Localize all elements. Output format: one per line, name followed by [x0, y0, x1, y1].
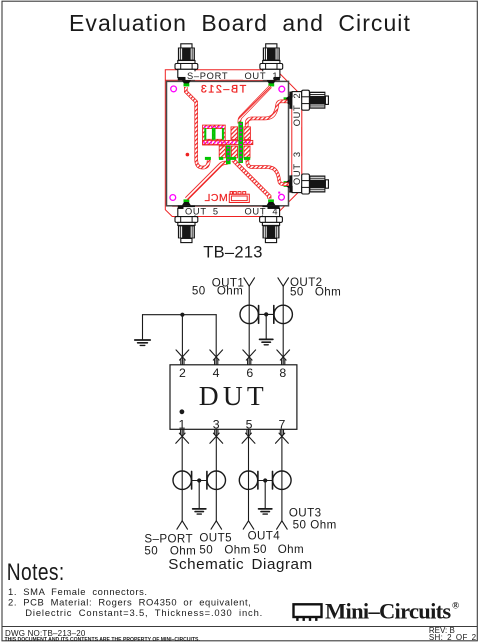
port arrow OUT5 — [211, 521, 222, 529]
mounting hole top-left — [171, 86, 177, 92]
net label OUT5 — [199, 532, 232, 545]
arrow into pin 6 — [243, 350, 256, 365]
OUT4 trace — [233, 160, 269, 199]
pin 1 marker dot — [180, 409, 185, 414]
port arrow OUT2 — [278, 278, 289, 286]
arrow into pin 2 — [176, 350, 189, 365]
pin number 4 — [213, 366, 220, 380]
junction node shield tie — [197, 478, 201, 482]
svg-text:Dielectric Constant=3.5, Thick: Dielectric Constant=3.5, Thickness=.030 … — [25, 607, 263, 618]
svg-text:50: 50 — [290, 286, 304, 299]
value label 50 Ohm (OUT5) — [199, 544, 250, 557]
SMA connector OUT 5 J6 (bottom, vertical) — [175, 199, 198, 242]
arrow into pin 3 — [210, 429, 223, 443]
net label OUT3 — [289, 506, 322, 519]
port arrow OUT3 — [277, 521, 288, 529]
svg-text:2. PCB Material: Rogers RO4350: 2. PCB Material: Rogers RO4350 or equiva… — [8, 596, 251, 607]
port label OUT 5 (bottom strip) — [185, 206, 219, 216]
board substrate — [167, 81, 289, 205]
wire shield tie OUT1/OUT2 — [259, 313, 274, 315]
Mini-Circuits logo — [294, 598, 460, 623]
pin number 7 — [278, 417, 285, 431]
via near OUT4 — [278, 192, 280, 194]
wire OUT2 to pin 8 — [282, 286, 284, 365]
svg-text:OUT 4: OUT 4 — [245, 206, 279, 216]
net label OUT2 — [290, 276, 323, 289]
svg-text:2: 2 — [179, 366, 186, 380]
port label S-PORT (top strip) — [187, 71, 228, 81]
silkscreen MCL logo (mirrored) — [204, 192, 249, 205]
coax connector symbol OUT2 — [274, 305, 293, 323]
svg-text:Ohm: Ohm — [224, 544, 250, 557]
value label 50 Ohm (S-PORT) — [144, 544, 196, 557]
arrow into pin 5 — [242, 429, 255, 443]
svg-text:50: 50 — [192, 285, 206, 298]
svg-text:DUT: DUT — [199, 380, 268, 411]
svg-text:5: 5 — [246, 417, 253, 431]
schematic diagram — [135, 276, 341, 573]
PCB board TB-213 top view — [165, 44, 328, 262]
port label OUT 1 (top strip) — [245, 71, 279, 81]
port arrow OUT4 — [243, 521, 254, 529]
DUT U1 — [170, 365, 297, 430]
svg-text:Mini–Circuits: Mini–Circuits — [325, 598, 451, 623]
port label OUT 2 (right strip, rotated) — [292, 93, 302, 127]
svg-text:6: 6 — [246, 366, 253, 380]
pad upper-left of C1 — [231, 127, 238, 140]
caption Schematic Diagram — [168, 556, 312, 573]
pin number 3 — [213, 417, 220, 431]
notes section — [7, 558, 263, 618]
wire pin 7 (OUT3) — [281, 429, 283, 521]
ground symbol — [259, 481, 272, 515]
coax connector symbol S-PORT — [173, 471, 192, 489]
pad lower-right — [244, 146, 250, 158]
pin number 6 — [246, 366, 253, 380]
svg-text:MCL: MCL — [204, 192, 228, 204]
port arrow S-PORT — [177, 521, 188, 529]
OUT2 trace — [247, 101, 288, 128]
arrow into pin 8 — [277, 350, 290, 365]
svg-text:Ohm: Ohm — [310, 518, 336, 531]
arrow into pin 7 — [276, 429, 289, 443]
SMA connector S-PORT J1 (top, vertical) — [175, 44, 198, 87]
pin number 1 — [178, 417, 185, 431]
svg-text:OUT 1: OUT 1 — [245, 71, 279, 81]
coax connector symbol OUT4 — [239, 471, 258, 489]
svg-text:OUT 3: OUT 3 — [292, 151, 302, 185]
SMA connector OUT 3 J4 (right side, horizontal) — [284, 174, 329, 194]
green tab 4 — [244, 157, 250, 160]
svg-text:®: ® — [452, 601, 459, 612]
ground bar with vias (pink hatched bar) — [203, 140, 253, 144]
svg-text:S–PORT: S–PORT — [187, 71, 228, 81]
svg-text:50: 50 — [199, 544, 213, 557]
net label OUT4 — [248, 529, 281, 542]
wire pin 5 (OUT4) — [248, 429, 250, 521]
value label 50 Ohm (OUT4) — [253, 543, 304, 556]
OUT3 trace — [247, 159, 288, 184]
port label OUT 4 (bottom strip) — [245, 206, 279, 216]
pad upper-right of C1 — [244, 127, 251, 140]
capacitor pad column C2 (short green) — [226, 145, 231, 164]
test point dot — [186, 153, 190, 157]
svg-text:SH: 2 OF 2: SH: 2 OF 2 — [429, 633, 477, 642]
silkscreen TB-213 (mirrored) — [199, 84, 246, 96]
junction node shield tie — [264, 312, 268, 316]
value label 50 Ohm (OUT2) — [290, 286, 341, 299]
pad lower-mid — [231, 146, 237, 158]
coax connector symbol OUT5 — [207, 471, 226, 489]
green tab 2 — [219, 157, 223, 160]
svg-text:TB–213: TB–213 — [199, 84, 246, 96]
svg-text:TB–213: TB–213 — [203, 244, 263, 262]
value label 50 Ohm (OUT3) — [293, 518, 337, 531]
port arrow OUT1 — [244, 278, 255, 286]
wire pin 1 (S-PORT) — [181, 429, 183, 521]
wire shield tie OUT4/OUT3 — [258, 480, 273, 482]
svg-text:THIS DOCUMENT AND ITS CONTENTS: THIS DOCUMENT AND ITS CONTENTS ARE THE P… — [5, 637, 201, 643]
OUT5 trace — [187, 158, 229, 199]
coax connector symbol OUT3 — [273, 471, 292, 489]
svg-text:Notes:: Notes: — [7, 558, 65, 586]
svg-text:1. SMA Female connectors.: 1. SMA Female connectors. — [8, 586, 148, 597]
svg-text:50: 50 — [253, 543, 267, 556]
SMA connector OUT 1 J2 (top, vertical) — [260, 44, 283, 87]
S-PORT trace — [186, 87, 209, 168]
svg-text:Ohm: Ohm — [315, 286, 341, 299]
pin number 2 — [179, 366, 186, 380]
svg-text:50: 50 — [293, 518, 307, 531]
svg-text:50: 50 — [144, 544, 158, 557]
mounting hole bottom-left — [170, 195, 176, 201]
junction node (pins 2/4 bus) — [180, 313, 184, 317]
capacitor pad column C1 (tall green) — [238, 122, 243, 163]
solder-side red outline — [165, 70, 301, 217]
value label 50 Ohm (OUT1) — [192, 285, 243, 298]
svg-text:Ohm: Ohm — [217, 285, 243, 298]
label knockouts — [184, 71, 302, 215]
svg-text:Evaluation Board and Circuit: Evaluation Board and Circuit — [69, 10, 411, 36]
arrow into pin 4 — [210, 350, 223, 365]
green tab 3 — [230, 157, 236, 160]
wire OUT1 to pin 6 — [248, 286, 250, 365]
wire shield tie S-PORT/OUT5 — [192, 480, 207, 482]
coax connector symbol OUT1 — [240, 305, 259, 323]
svg-text:OUT4: OUT4 — [248, 529, 281, 542]
svg-text:Schematic Diagram: Schematic Diagram — [168, 556, 312, 573]
arrow into pin 1 — [176, 429, 189, 443]
SMA connector OUT 4 J5 (bottom, vertical) — [260, 199, 283, 242]
footer title block — [2, 626, 477, 643]
OUT1 trace — [239, 87, 270, 124]
net label OUT1 — [212, 276, 245, 289]
svg-text:OUT 5: OUT 5 — [185, 206, 219, 216]
port label OUT 3 (right strip, rotated) — [292, 151, 302, 185]
SMA connector OUT 2 J3 (right side, horizontal) — [284, 90, 329, 110]
svg-text:4: 4 — [213, 366, 220, 380]
mounting hole bottom-right — [279, 194, 285, 200]
svg-text:8: 8 — [279, 366, 286, 380]
pad lower-left — [219, 146, 225, 158]
net label S-PORT — [144, 532, 193, 545]
wire ground bus to pins 2,4 — [143, 315, 217, 365]
pin number 5 — [246, 417, 253, 431]
board name label TB-213 — [203, 244, 263, 262]
mounting hole top-right — [279, 86, 285, 92]
svg-text:OUT 2: OUT 2 — [292, 93, 302, 127]
pin number 8 — [279, 366, 286, 380]
wire pin 3 (OUT5) — [215, 429, 217, 521]
ground symbol G2 — [260, 314, 273, 344]
junction node shield tie — [263, 478, 267, 482]
ground symbol — [193, 481, 206, 515]
green tab 1 — [205, 157, 211, 160]
ground symbol G1 — [135, 315, 150, 346]
svg-text:Ohm: Ohm — [278, 543, 304, 556]
transformer T1 footprint (left block) — [203, 125, 226, 145]
